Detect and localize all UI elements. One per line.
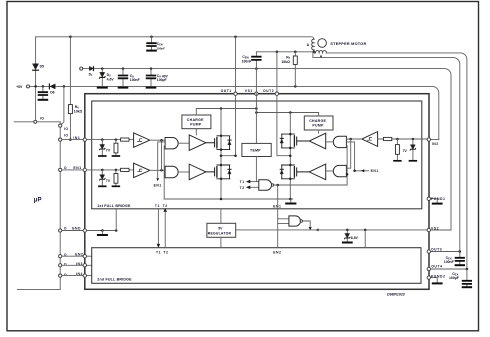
PGND1 pin and ground	[428, 199, 437, 203]
svg-text:+5V: +5V	[16, 85, 23, 89]
svg-text:6.8V: 6.8V	[351, 236, 359, 240]
svg-text:D98IN1023: D98IN1023	[387, 293, 405, 297]
capacitor C7	[42, 86, 44, 98]
NAND gate (T1,T2)	[259, 180, 272, 191]
svg-text:OUT4: OUT4	[431, 264, 442, 268]
wire: bottom rail bridge1	[164, 198, 293, 200]
wire: OUT1/OUT2 verticals above IC	[236, 37, 277, 92]
svg-text:IO: IO	[64, 134, 69, 138]
stepper motor winding B	[314, 51, 326, 53]
wire: VS rail left	[196, 108, 256, 110]
svg-text:CHARGE: CHARGE	[309, 119, 326, 123]
svg-text:EN2: EN2	[273, 251, 281, 255]
wire: micro top IO lead	[14, 122, 60, 124]
svg-text:100µF: 100µF	[449, 276, 459, 280]
svg-text:T2: T2	[163, 250, 168, 254]
wire: right weave rail b	[346, 139, 350, 168]
svg-text:A: A	[307, 43, 310, 47]
wire: A2 out to driver	[178, 171, 189, 173]
wire: lower gate stubs	[278, 219, 289, 224]
resistor (IN1 to gnd)	[115, 140, 117, 155]
node: rail input terminal	[80, 67, 83, 70]
microprocessor block	[17, 127, 60, 289]
diode D5	[33, 64, 39, 70]
wire: VS rail right	[256, 112, 318, 114]
svg-text:10kΩ: 10kΩ	[74, 109, 83, 113]
svg-text:IN3: IN3	[76, 262, 83, 266]
MOSFET Q1 (upper left)	[206, 136, 231, 150]
wire: OUT4 pin row	[428, 268, 467, 270]
svg-text:TEMP: TEMP	[250, 149, 261, 153]
svg-text:T2: T2	[163, 204, 168, 208]
AND gate A3 (mirrored)	[333, 136, 346, 147]
svg-text:100nF: 100nF	[156, 46, 165, 50]
stepper motor circle	[318, 39, 327, 48]
driver triangle 1	[189, 135, 206, 151]
svg-text:μP: μP	[34, 197, 42, 203]
ground: GND pin	[101, 231, 103, 235]
svg-text:O: O	[64, 263, 67, 267]
wire: EN1 row	[62, 169, 84, 171]
wire: NAND out	[274, 184, 347, 186]
wire: right weave rail a with EN1 stub	[347, 142, 369, 171]
svg-text:VS1: VS1	[245, 89, 253, 93]
wire: IN1 internal row	[87, 139, 135, 141]
AND gate (enable)	[289, 216, 301, 226]
svg-text:EN2: EN2	[75, 253, 83, 257]
charge pump 1 box	[182, 115, 211, 129]
wire: A4 out to driver4	[326, 170, 334, 172]
capacitor CEX 100uF	[466, 269, 468, 286]
svg-text:2nd FULL BRIDGE: 2nd FULL BRIDGE	[97, 278, 132, 282]
wire: winding B left to OUT3	[313, 52, 460, 252]
wire: OUT2 to mid node	[277, 95, 290, 155]
input buffer U2 (IN2, points left)	[362, 132, 378, 147]
svg-text:T2: T2	[240, 186, 245, 190]
wire: IN4 row	[62, 275, 92, 277]
T2 inter-bridge arrow	[164, 211, 166, 248]
wire: EN2 row	[62, 255, 92, 257]
5V regulator block	[207, 223, 236, 237]
svg-text:5V: 5V	[218, 226, 223, 230]
svg-text:VS2: VS2	[431, 226, 439, 230]
wire: OUT2 net (y=51.8)	[256, 51, 313, 53]
svg-text:D5: D5	[40, 65, 44, 69]
zener 6.8V	[346, 230, 348, 242]
svg-text:PGND2: PGND2	[431, 274, 445, 278]
svg-text:EN1: EN1	[154, 184, 162, 188]
resistor (IN1 series)	[121, 138, 129, 141]
wire: VS2 internal net	[236, 229, 428, 231]
svg-text:EN1: EN1	[371, 169, 379, 173]
wire: half-bridge rails	[221, 109, 290, 200]
wire: top net OUT1 to motor A	[36, 37, 314, 40]
svg-text:100nF: 100nF	[242, 59, 252, 63]
svg-text:B: B	[320, 55, 323, 59]
wire: EN2 vertical	[277, 185, 279, 248]
svg-text:OUT1: OUT1	[221, 89, 232, 93]
wire: VS1 to TEMP	[255, 94, 257, 144]
capacitor CEN (top, 100nF)	[151, 37, 153, 50]
T2 arrow	[250, 186, 259, 188]
svg-text:STEPPER MOTOR: STEPPER MOTOR	[330, 42, 366, 46]
svg-text:OUT3: OUT3	[431, 248, 442, 252]
pin circles right	[427, 138, 430, 141]
wire: GND internal	[87, 230, 117, 232]
zener D2 4.6V	[101, 69, 103, 87]
wire: VS2 pin row	[428, 229, 451, 231]
charge pump 2 box	[304, 116, 333, 130]
wire: IN2 pin row	[428, 139, 439, 141]
wire: buffer IN2 out	[346, 138, 361, 140]
svg-text:IO: IO	[64, 127, 69, 131]
diode D6	[50, 84, 55, 89]
driver triangle 2	[189, 164, 206, 180]
pin circles top	[234, 92, 237, 95]
svg-text:IN2: IN2	[432, 142, 439, 146]
bridge 1 box	[92, 101, 422, 209]
svg-text:PUMP: PUMP	[312, 124, 324, 128]
wire: weave vertical 1	[161, 140, 163, 170]
PGND2 pin and ground	[428, 278, 437, 283]
svg-text:7V: 7V	[403, 149, 408, 153]
wire: +5V rail	[30, 86, 439, 139]
svg-text:REGULATOR: REGULATOR	[208, 232, 232, 236]
pin circles left	[83, 138, 86, 141]
resistor R7 10k	[294, 52, 296, 87]
zener 7V (EN1)	[101, 170, 103, 185]
micro pin circles	[59, 124, 62, 127]
wire: left drop through D5	[35, 37, 37, 120]
wire: VS2 net drop to bridge2	[364, 230, 366, 248]
wire: 5Vreg stubs	[220, 209, 222, 248]
wire: buffer2 out	[150, 169, 165, 171]
wire: EN1 internal row	[87, 169, 135, 171]
wire: IN2 network	[378, 138, 428, 140]
AND gate A2	[165, 166, 178, 177]
T1 inter-bridge arrow	[157, 209, 159, 245]
svg-text:T1: T1	[156, 250, 161, 254]
svg-text:7V: 7V	[106, 179, 111, 183]
svg-text:CHARGE: CHARGE	[187, 118, 204, 122]
ground: bridge1 rail	[290, 199, 292, 203]
IC outer border	[85, 94, 429, 290]
svg-text:1st FULL BRIDGE: 1st FULL BRIDGE	[97, 204, 131, 208]
TEMP block	[242, 143, 271, 156]
wire: GND up to bridge1	[115, 209, 117, 231]
svg-text:PGND1: PGND1	[431, 197, 445, 201]
capacitor CEX 100nF	[459, 252, 461, 265]
node: +5V terminal	[27, 85, 30, 88]
svg-text:GND: GND	[72, 227, 81, 231]
capacitor C9 100uF 40V	[150, 69, 152, 87]
MOSFET Q2 (lower left)	[206, 165, 231, 179]
diode D1	[89, 67, 93, 71]
wire: right weave rail c	[345, 145, 348, 185]
capacitor CEN (VS1-OUT2, 100nF)	[255, 52, 257, 69]
wire: IN1 row	[62, 139, 84, 141]
svg-text:IO: IO	[40, 117, 45, 121]
wire: OUT3 pin row	[428, 251, 460, 253]
bridge 2 box	[92, 248, 421, 284]
wire: TEMP to T1 node	[255, 157, 257, 182]
svg-text:D1: D1	[89, 72, 93, 77]
svg-text:7V: 7V	[106, 149, 111, 153]
wire: D1 supply rail	[83, 69, 451, 230]
wire: buffer1 out	[150, 139, 165, 141]
svg-text:T1: T1	[155, 204, 160, 208]
resistor R6 10k (IN1 pull-up)	[69, 37, 71, 140]
wire: +5V dropper to micro	[61, 86, 64, 124]
MOSFET Q4 (lower right)	[280, 165, 309, 179]
wire: A3 out to driver3	[326, 141, 334, 143]
resistor (EN1 to gnd)	[115, 170, 117, 185]
resistor (IN2 series)	[383, 137, 391, 140]
svg-text:PUMP: PUMP	[190, 123, 202, 127]
svg-text:OUT2: OUT2	[263, 89, 274, 93]
MOSFET Q3 (upper right)	[280, 134, 309, 148]
svg-text:4.6V: 4.6V	[107, 77, 115, 81]
wire: CP1 feed and stub	[195, 109, 197, 135]
svg-text:10kΩ: 10kΩ	[281, 60, 290, 64]
wire: CP2 stubs	[318, 113, 320, 134]
capacitor C8 100nF	[122, 69, 124, 87]
svg-text:100nF: 100nF	[130, 78, 140, 82]
resistor (IN2 to gnd)	[396, 139, 398, 160]
stepper motor winding A	[313, 39, 315, 52]
wire: winding B right to OUT4	[326, 53, 467, 269]
svg-text:100nF: 100nF	[444, 260, 454, 264]
driver triangle 4 (right, points left)	[309, 164, 326, 180]
wire: OUT1 to mid node	[221, 95, 236, 155]
svg-text:IN1: IN1	[73, 136, 80, 140]
arrow EN1 (right)	[361, 169, 365, 172]
T1 arrow	[250, 181, 259, 183]
svg-text:IN4: IN4	[76, 272, 83, 276]
svg-text:100µF: 100µF	[157, 78, 167, 82]
driver triangle 3 (right, points left)	[309, 133, 326, 149]
svg-text:EN1: EN1	[73, 166, 81, 170]
AND gate A1	[165, 138, 178, 149]
svg-text:O: O	[64, 273, 67, 277]
wire: EN1 rail with arrow	[158, 142, 165, 179]
wire: IN3 row	[62, 264, 92, 266]
AND gate A4 (mirrored)	[333, 165, 346, 176]
resistor (EN1 series)	[121, 168, 129, 171]
wire: A1 out to driver	[178, 142, 189, 144]
wire: GND row	[62, 230, 84, 232]
node: junction dots on top net	[69, 36, 72, 39]
svg-text:D6: D6	[50, 90, 54, 94]
wire: weave vertical 2	[163, 146, 166, 199]
svg-text:T1: T1	[240, 180, 245, 184]
wire: VS1 drop	[255, 69, 257, 92]
buffer U1b (EN1)	[134, 163, 150, 177]
zener 7V (IN1)	[101, 140, 103, 155]
wire: enable gate out	[303, 221, 311, 227]
buffer U1a (IN1)	[134, 133, 150, 147]
zener 7V (IN2)	[412, 139, 414, 160]
arrow marker on VS2 net	[315, 228, 318, 231]
